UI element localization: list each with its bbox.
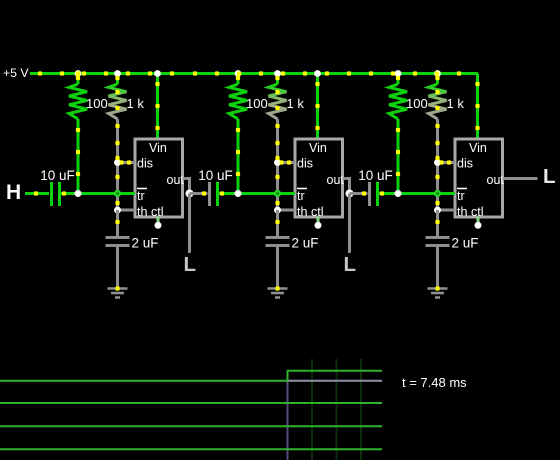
node: U3 ctl post (475, 222, 482, 229)
svg-text:tr: tr (297, 189, 305, 203)
wire: C2 to ground (116, 247, 119, 287)
wire: th to C6 (436, 210, 439, 237)
svg-text:2 uF: 2 uF (132, 236, 159, 251)
555 timer U1 body (135, 139, 183, 217)
svg-text:100: 100 (246, 96, 268, 111)
svg-text:dis: dis (297, 157, 313, 171)
node: rail junction R1 (75, 70, 82, 77)
svg-text:ctl: ctl (311, 205, 324, 219)
wire: C4 to ground (276, 247, 279, 287)
node: U3 tr post under wire (434, 190, 441, 197)
wire: U2 dis pin lead (278, 161, 296, 164)
current dot on ground stage 3 (435, 286, 439, 290)
U2 pin label tr (with overbar) (297, 189, 307, 204)
scope trace channel 1 (steps high) (0, 371, 382, 381)
node: rail junction R4 (274, 70, 281, 77)
node: rail junction U1 Vin (154, 70, 161, 77)
node: U3 dis post (434, 159, 441, 166)
capacitor C1 10 uF input coupling stage 1 (52, 182, 60, 206)
wire: out junction down to L label stage 1 (188, 194, 191, 254)
svg-text:ctl: ctl (151, 205, 164, 219)
node: trigger junction stage 3 (395, 190, 402, 197)
555 timer U2 body (295, 139, 343, 217)
wire: C6 to ground (436, 247, 439, 287)
node: rail junction R6 (434, 70, 441, 77)
wire: out junction to next stage cap (190, 192, 208, 195)
node: U1 dis post (114, 159, 121, 166)
scope gridline dark green 1 (311, 359, 313, 460)
svg-text:th: th (457, 205, 467, 219)
wire: th to C4 (276, 210, 279, 237)
wire: U2 ctl stub (317, 217, 320, 224)
svg-text:t = 7.48 ms: t = 7.48 ms (402, 375, 467, 390)
node: U1 th post (114, 207, 121, 214)
resistor R6 1k stage 3 (429, 74, 447, 163)
svg-text:H: H (6, 181, 21, 204)
node: out junction stage 1 (186, 190, 194, 198)
555 timer U3 body (455, 139, 503, 217)
wire: th to C2 (116, 210, 119, 237)
wire: trigger junction to U2 tr pin (238, 192, 295, 195)
svg-text:L: L (344, 253, 357, 276)
resistor R5 100 ohm stage 3 (389, 74, 407, 194)
wire: U3 dis pin lead (438, 161, 456, 164)
wire: C5 to trigger junction (379, 192, 398, 195)
node: rail junction R5 (395, 70, 402, 77)
resistor R3 100 ohm stage 2 (229, 74, 247, 194)
svg-text:th: th (137, 205, 147, 219)
current dot on ground stage 2 (275, 286, 279, 290)
svg-text:1 k: 1 k (447, 96, 465, 111)
capacitor C2 2 uF timing stage 1 (106, 238, 130, 246)
wire: C3 to trigger junction (219, 192, 238, 195)
wire: rail to U2 Vin pin (316, 74, 319, 140)
scope trace channel 4 (0, 448, 382, 450)
svg-text:2 uF: 2 uF (292, 236, 319, 251)
wire: U3 th pin lead (438, 209, 456, 212)
svg-text:dis: dis (137, 157, 153, 171)
wire: out junction to next stage cap (350, 192, 368, 195)
node: U2 ctl post (315, 222, 322, 229)
node: U2 dis post (274, 159, 281, 166)
svg-text:ctl: ctl (471, 205, 484, 219)
svg-text:tr: tr (457, 189, 465, 203)
svg-text:1 k: 1 k (287, 96, 305, 111)
svg-text:out: out (167, 173, 185, 187)
node: out junction stage 2 (346, 190, 354, 198)
svg-text:10 uF: 10 uF (358, 168, 393, 183)
wire: dis to th vertical (436, 163, 439, 211)
+5V supply rail wire (30, 72, 478, 75)
scope channel 1 zero line (gray) (288, 380, 383, 382)
scope gridline dark green 3 (360, 359, 362, 460)
node: U2 th post (274, 207, 281, 214)
node: U1 tr post under wire (114, 190, 121, 197)
wire: U1 dis pin lead (118, 161, 136, 164)
ground symbol stage 3 (428, 289, 448, 298)
wire: U2 th pin lead (278, 209, 296, 212)
wire: U3 ctl stub (477, 217, 480, 224)
ground symbol stage 2 (268, 289, 288, 298)
wire: U3 out pin (503, 177, 538, 180)
current dot on ground stage 1 (115, 286, 119, 290)
wire: U1 th pin lead (118, 209, 136, 212)
ground symbol stage 1 (108, 289, 128, 298)
capacitor C3 10 uF input coupling stage 2 (210, 182, 218, 206)
U3 pin label tr (with overbar) (457, 189, 467, 204)
node: U2 tr post under wire (274, 190, 281, 197)
svg-text:100: 100 (86, 96, 108, 111)
node: U3 th post (434, 207, 441, 214)
svg-text:out: out (327, 173, 345, 187)
resistor R4 1k stage 2 (269, 74, 287, 163)
svg-text:out: out (487, 173, 505, 187)
node: rail junction R2 (114, 70, 121, 77)
wire: U2 out pin (343, 179, 350, 194)
resistor R1 100 ohm stage 1 (69, 74, 87, 194)
capacitor C6 2 uF timing stage 3 (426, 238, 450, 246)
node: trigger junction stage 1 (75, 190, 82, 197)
svg-text:10 uF: 10 uF (40, 168, 75, 183)
svg-text:100: 100 (406, 96, 428, 111)
wire: trigger junction to U3 tr pin (398, 192, 455, 195)
wire: U1 out pin (183, 179, 190, 194)
svg-text:1 k: 1 k (127, 96, 145, 111)
wire: trigger junction to U1 tr pin (78, 192, 135, 195)
scope gridline dark green 2 (336, 359, 338, 460)
svg-text:10 uF: 10 uF (198, 168, 233, 183)
svg-text:L: L (184, 253, 197, 276)
current dots on branches (34, 76, 480, 224)
wire: rail corner down to U3 Vin (476, 74, 479, 140)
capacitor C4 2 uF timing stage 2 (266, 238, 290, 246)
svg-text:tr: tr (137, 189, 145, 203)
svg-text:+5 V: +5 V (3, 66, 29, 80)
svg-text:Vin: Vin (309, 141, 327, 155)
resistor R2 1k stage 1 (109, 74, 127, 163)
wire: U1 ctl stub (157, 217, 160, 224)
scope time marker vertical line (287, 372, 289, 460)
wire: rail to U1 Vin pin (156, 74, 159, 140)
capacitor C5 10 uF input coupling stage 3 (370, 182, 378, 206)
current dots on +5V rail (38, 71, 461, 76)
wire: dis to th vertical (116, 163, 119, 211)
wire: H to C1 (25, 192, 49, 195)
svg-text:2 uF: 2 uF (452, 236, 479, 251)
wire: out junction down to L label stage 2 (348, 194, 351, 254)
svg-text:Vin: Vin (469, 141, 487, 155)
svg-text:Vin: Vin (149, 141, 167, 155)
svg-text:dis: dis (457, 157, 473, 171)
svg-text:L: L (543, 165, 556, 188)
wire: C1 to trigger junction (61, 192, 78, 195)
node: rail junction U2 Vin (314, 70, 321, 77)
scope trace channel 2 (0, 402, 382, 404)
node: U1 ctl post (155, 222, 162, 229)
node: rail junction R3 (235, 70, 242, 77)
U1 pin label tr (with overbar) (137, 189, 147, 204)
scope trace channel 3 (0, 425, 382, 427)
wire: dis to th vertical (276, 163, 279, 211)
svg-text:th: th (297, 205, 307, 219)
node: trigger junction stage 2 (235, 190, 242, 197)
